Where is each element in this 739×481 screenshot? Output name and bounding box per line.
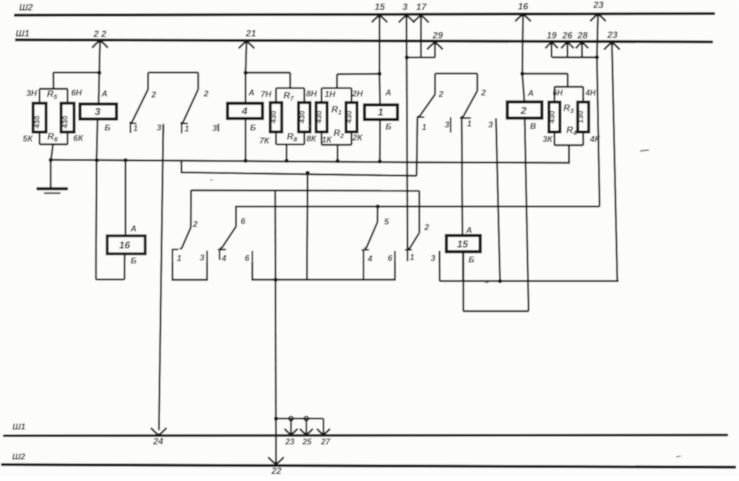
svg-text:6К: 6К <box>73 133 84 143</box>
svg-text:15: 15 <box>375 2 386 12</box>
svg-text:Б: Б <box>250 122 256 132</box>
svg-text:26: 26 <box>561 30 573 40</box>
svg-text:6: 6 <box>388 254 393 263</box>
svg-text:4Н: 4Н <box>585 89 596 98</box>
svg-text:27: 27 <box>320 438 331 447</box>
svg-text:1: 1 <box>177 254 182 263</box>
svg-text:Ш2: Ш2 <box>19 3 33 13</box>
svg-text:4: 4 <box>241 105 248 117</box>
svg-text:3: 3 <box>431 253 436 263</box>
svg-text:8К: 8К <box>306 134 317 144</box>
svg-text:7Н: 7Н <box>261 89 273 99</box>
svg-text:3: 3 <box>488 120 493 130</box>
svg-text:430: 430 <box>547 111 556 124</box>
svg-text:1: 1 <box>133 124 138 133</box>
svg-text:3Н: 3Н <box>26 88 38 98</box>
svg-text:16: 16 <box>119 241 131 252</box>
svg-text:4: 4 <box>221 254 227 263</box>
svg-text:Б: Б <box>469 255 475 265</box>
svg-text:2: 2 <box>192 219 198 229</box>
svg-text:2: 2 <box>480 88 486 98</box>
svg-text:6: 6 <box>241 216 246 226</box>
svg-text:1К: 1К <box>322 134 333 144</box>
svg-text:21: 21 <box>245 29 256 39</box>
svg-text:2: 2 <box>423 222 429 232</box>
svg-text:2Н: 2Н <box>351 89 364 99</box>
svg-text:Ш1: Ш1 <box>16 29 30 39</box>
svg-text:3К: 3К <box>543 134 554 144</box>
svg-text:5: 5 <box>384 217 389 227</box>
svg-text:17: 17 <box>416 2 427 12</box>
svg-text:430: 430 <box>297 111 306 124</box>
svg-text:430: 430 <box>269 111 278 124</box>
svg-text:4: 4 <box>367 255 373 264</box>
svg-text:6Н: 6Н <box>553 88 563 97</box>
svg-text:1Н: 1Н <box>325 89 337 99</box>
svg-text:А: А <box>101 89 108 99</box>
svg-text:А: А <box>527 88 534 98</box>
svg-text:А: А <box>130 224 137 234</box>
svg-text:2: 2 <box>203 89 209 99</box>
svg-text:28: 28 <box>577 30 588 40</box>
svg-text:23: 23 <box>284 438 295 447</box>
svg-text:430: 430 <box>33 116 42 129</box>
svg-text:19: 19 <box>547 30 557 40</box>
svg-text:8Н: 8Н <box>306 89 318 99</box>
svg-text:Ш2: Ш2 <box>12 452 25 462</box>
svg-text:15: 15 <box>457 240 469 251</box>
svg-text:6: 6 <box>245 254 250 263</box>
svg-text:Б: Б <box>386 122 392 132</box>
svg-text:130: 130 <box>576 111 585 124</box>
svg-text:23: 23 <box>592 0 603 10</box>
svg-text:2 2: 2 2 <box>93 29 108 39</box>
svg-text:430: 430 <box>61 116 70 129</box>
svg-text:Б: Б <box>131 255 137 265</box>
svg-text:1: 1 <box>467 119 472 128</box>
svg-text:5К: 5К <box>23 134 34 144</box>
svg-text:2: 2 <box>150 90 156 100</box>
svg-text:Ш1: Ш1 <box>12 422 25 432</box>
svg-text:2К: 2К <box>351 133 363 143</box>
svg-text:А: А <box>465 225 472 235</box>
svg-text:1: 1 <box>410 253 415 262</box>
svg-text:23: 23 <box>606 30 617 40</box>
svg-text:16: 16 <box>518 1 529 11</box>
svg-text:22: 22 <box>270 466 281 476</box>
svg-text:В: В <box>530 121 536 131</box>
svg-text:2: 2 <box>520 105 527 117</box>
svg-text:3: 3 <box>212 123 217 133</box>
svg-text:25: 25 <box>301 438 312 447</box>
svg-text:1: 1 <box>185 124 190 133</box>
svg-text:4К: 4К <box>589 134 601 144</box>
svg-text:1: 1 <box>378 107 384 119</box>
svg-text:Б: Б <box>105 123 111 133</box>
svg-text:3: 3 <box>157 123 162 133</box>
svg-text:7К: 7К <box>259 135 270 145</box>
svg-text:430: 430 <box>315 111 324 124</box>
svg-text:3: 3 <box>200 253 205 263</box>
svg-text:3: 3 <box>95 106 101 118</box>
svg-text:3: 3 <box>403 2 408 12</box>
svg-text:24: 24 <box>152 437 163 447</box>
svg-text:А: А <box>248 88 255 98</box>
svg-text:29: 29 <box>432 30 444 40</box>
svg-text:3: 3 <box>445 119 450 129</box>
svg-text:А: А <box>384 88 391 98</box>
svg-text:430: 430 <box>345 111 354 124</box>
svg-text:1: 1 <box>422 123 427 132</box>
svg-text:6Н: 6Н <box>71 88 83 98</box>
svg-text:2: 2 <box>438 89 444 99</box>
